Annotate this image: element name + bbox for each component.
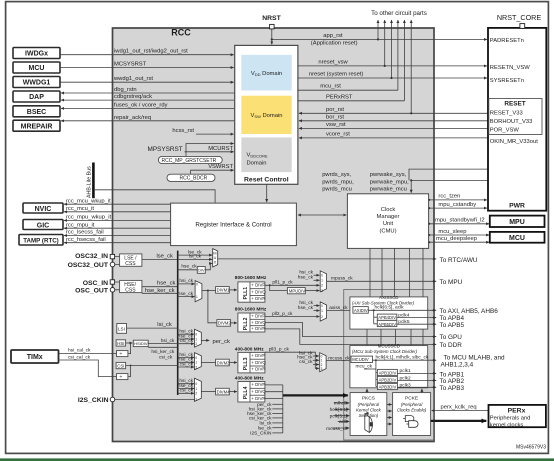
- svg-text:RESETN_VSW: RESETN_VSW: [490, 65, 530, 71]
- svg-text:To DDR: To DDR: [440, 342, 463, 349]
- svg-text:mcu_deepsleep: mcu_deepsleep: [436, 236, 477, 242]
- svg-text:csi_ck: csi_ck: [180, 362, 194, 368]
- svg-text:DIVM2: DIVM2: [218, 321, 231, 326]
- svg-text:Reset Control: Reset Control: [244, 177, 289, 184]
- svg-text:0: 0: [195, 382, 197, 386]
- svg-text:kernel clocks: kernel clocks: [490, 422, 524, 428]
- svg-text:2: 2: [321, 284, 323, 288]
- svg-text:pll3_p_ck: pll3_p_ck: [269, 346, 290, 352]
- svg-text:iwdg1_out_rst/iwdg2_out_rst: iwdg1_out_rst/iwdg2_out_rst: [114, 49, 188, 55]
- svg-text:MPSYSRST: MPSYSRST: [148, 146, 183, 153]
- svg-text:2: 2: [321, 315, 323, 319]
- svg-text:2: 2: [195, 392, 197, 396]
- svg-text:csi_cal_ck: csi_cal_ck: [68, 354, 91, 360]
- svg-text:CSS: CSS: [125, 261, 136, 267]
- svg-text:Domain: Domain: [247, 161, 267, 167]
- svg-text:DAP: DAP: [29, 94, 44, 101]
- svg-text:400-800 MHz: 400-800 MHz: [235, 375, 264, 381]
- svg-text:+ DIVR: + DIVR: [251, 367, 265, 372]
- svg-text:3: 3: [321, 289, 323, 293]
- svg-text:pwrds_mcu: pwrds_mcu: [322, 186, 352, 192]
- svg-text:(Peripheral: (Peripheral: [401, 402, 423, 407]
- svg-text:Clocks Enable): Clocks Enable): [397, 408, 427, 413]
- svg-text:GIC: GIC: [37, 222, 49, 229]
- svg-text:+ DIVP: + DIVP: [251, 382, 265, 387]
- svg-text:pwrwake_mpu,: pwrwake_mpu,: [370, 179, 409, 185]
- svg-text:NRST: NRST: [262, 15, 281, 22]
- svg-text:MCUSSCD: MCUSSCD: [378, 344, 400, 349]
- svg-text:3: 3: [195, 398, 197, 402]
- svg-text:rcc_hsecss_fail: rcc_hsecss_fail: [66, 237, 106, 243]
- svg-text:pclk4: pclk4: [398, 312, 410, 318]
- svg-text:perx_kclk_req: perx_kclk_req: [441, 405, 477, 411]
- svg-text:1: 1: [196, 295, 198, 299]
- svg-text:To GPU: To GPU: [440, 334, 463, 341]
- svg-text:repair_ack/req: repair_ack/req: [114, 115, 151, 121]
- svg-text:U: U: [214, 256, 217, 260]
- svg-text:HSI: HSI: [117, 341, 124, 346]
- svg-text:DIVM1: DIVM1: [217, 288, 230, 293]
- svg-text:M: M: [213, 251, 216, 255]
- svg-text:+ DIVP: + DIVP: [251, 283, 265, 288]
- svg-text:÷: ÷: [120, 351, 123, 357]
- svg-text:0: 0: [196, 283, 198, 287]
- svg-text:pwrwake_mcu: pwrwake_mcu: [370, 186, 407, 192]
- svg-text:HSIDIV: HSIDIV: [134, 341, 148, 346]
- svg-text:I2S_CKIN: I2S_CKIN: [250, 431, 272, 437]
- svg-text:To RTC/AWU: To RTC/AWU: [440, 257, 478, 264]
- svg-text:hse_ker_ck: hse_ker_ck: [145, 288, 175, 294]
- svg-text:OSC_OUT: OSC_OUT: [75, 288, 109, 295]
- svg-text:1: 1: [195, 387, 197, 391]
- svg-text:hcss_rst: hcss_rst: [172, 128, 194, 134]
- svg-text:bor_rst: bor_rst: [326, 114, 344, 120]
- svg-text:app_rst: app_rst: [323, 33, 343, 39]
- svg-text:hsi_cal_ck: hsi_cal_ck: [68, 348, 91, 354]
- svg-text:rcc_lsecss_fail: rcc_lsecss_fail: [66, 230, 104, 236]
- svg-text:lse_ck: lse_ck: [157, 253, 174, 259]
- svg-text:1: 1: [321, 279, 323, 283]
- svg-text:wwdg1_out_rst: wwdg1_out_rst: [113, 76, 153, 82]
- svg-text:AXIDIV: AXIDIV: [354, 308, 368, 313]
- svg-text:nreset (system reset): nreset (system reset): [309, 72, 364, 78]
- svg-text:NRST_CORE: NRST_CORE: [497, 13, 542, 22]
- svg-text:+ DIVP: + DIVP: [251, 313, 265, 318]
- svg-text:pll1_p_ck: pll1_p_ck: [272, 280, 293, 286]
- svg-text:+ DIVQ: + DIVQ: [251, 289, 266, 294]
- svg-text:OSC32_IN: OSC32_IN: [75, 253, 108, 260]
- svg-text:MCU: MCU: [29, 65, 45, 72]
- svg-text:mpu_cstandby: mpu_cstandby: [438, 202, 476, 208]
- svg-text:IWDGx: IWDGx: [25, 51, 48, 58]
- svg-text:AHB1,2,3,4: AHB1,2,3,4: [441, 361, 474, 368]
- svg-text:pclk3: pclk3: [400, 383, 412, 389]
- svg-text:APB2DIV: APB2DIV: [379, 377, 397, 382]
- svg-text:PLL2: PLL2: [243, 317, 249, 330]
- svg-text:lsi_ck: lsi_ck: [157, 322, 172, 328]
- svg-text:hsi_ck: hsi_ck: [179, 278, 193, 284]
- svg-text:RCC_MP_GRSTCSETR: RCC_MP_GRSTCSETR: [162, 158, 217, 164]
- svg-text:WWDG1: WWDG1: [23, 80, 51, 87]
- svg-text:PWR: PWR: [509, 203, 525, 210]
- svg-text:mcu_sleep: mcu_sleep: [438, 229, 466, 235]
- svg-text:3: 3: [321, 367, 323, 371]
- svg-text:MCU: MCU: [509, 235, 525, 242]
- svg-text:400-800 MHz: 400-800 MHz: [235, 346, 264, 352]
- svg-text:hse_ck: hse_ck: [157, 281, 175, 287]
- svg-text:Peripherals and: Peripherals and: [490, 415, 531, 421]
- svg-text:(AXI Sub-System Clock Divider): (AXI Sub-System Clock Divider): [352, 300, 415, 305]
- svg-text:rcc_tzen: rcc_tzen: [438, 194, 460, 200]
- svg-text:Unit: Unit: [383, 221, 394, 227]
- svg-text:+ DIVP: + DIVP: [251, 353, 265, 358]
- svg-text:PLL1: PLL1: [243, 287, 249, 300]
- svg-text:Register Interface & Control: Register Interface & Control: [195, 222, 271, 229]
- svg-text:Selection): Selection): [359, 413, 379, 418]
- svg-text:1: 1: [195, 361, 197, 365]
- svg-text:0: 0: [321, 304, 323, 308]
- svg-text:vcore_rst: vcore_rst: [326, 131, 350, 137]
- svg-text:MREPAIR: MREPAIR: [21, 123, 53, 130]
- svg-text:pwrwake_sys,: pwrwake_sys,: [370, 172, 407, 178]
- svg-text:csi_ck: csi_ck: [299, 359, 313, 365]
- svg-text:APB5DIV: APB5DIV: [378, 322, 396, 327]
- svg-text:hclk[6:1]: hclk[6:1]: [330, 407, 348, 413]
- svg-text:DIV: DIV: [198, 269, 205, 273]
- svg-text:To other circuit parts: To other circuit parts: [371, 10, 427, 17]
- svg-text:+ DIVR: + DIVR: [251, 396, 265, 401]
- svg-text:MCURST: MCURST: [208, 146, 233, 152]
- svg-text:APB3DIV: APB3DIV: [379, 384, 397, 389]
- svg-text:Clock: Clock: [381, 207, 396, 213]
- svg-text:dbg_rstn: dbg_rstn: [114, 87, 137, 93]
- svg-text:+ DIVQ: + DIVQ: [251, 320, 266, 325]
- svg-text:PKCS: PKCS: [362, 395, 375, 401]
- svg-text:2: 2: [195, 365, 197, 369]
- svg-text:PERx: PERx: [508, 407, 526, 414]
- svg-text:RCC_BDCR: RCC_BDCR: [180, 176, 208, 182]
- svg-text:2: 2: [195, 342, 197, 346]
- svg-text:rcc_mcu_wkup_it: rcc_mcu_wkup_it: [66, 198, 111, 204]
- svg-text:vsw_rst: vsw_rst: [326, 122, 346, 128]
- svg-text:cdbgrstreq/ack: cdbgrstreq/ack: [114, 94, 152, 100]
- svg-text:PLL4: PLL4: [243, 386, 249, 399]
- svg-text:DIVM3: DIVM3: [217, 360, 230, 365]
- svg-text:0: 0: [195, 333, 197, 337]
- svg-text:+ DIVQ: + DIVQ: [251, 360, 266, 365]
- svg-text:To MPU: To MPU: [440, 279, 463, 286]
- svg-text:AXISSCD: AXISSCD: [379, 295, 398, 300]
- svg-text:hse_ck: hse_ck: [178, 291, 194, 297]
- svg-text:hsi_ck: hsi_ck: [161, 338, 175, 344]
- svg-text:RESET_V33: RESET_V33: [490, 111, 523, 117]
- svg-text:pclk5: pclk5: [398, 319, 410, 325]
- svg-text:hclk[4:1], mlhclk, slbc_ck: hclk[4:1], mlhclk, slbc_ck: [376, 355, 429, 361]
- svg-text:800-1600 MHz: 800-1600 MHz: [235, 275, 267, 281]
- svg-text:OKIN_MR_V33out: OKIN_MR_V33out: [490, 139, 538, 145]
- svg-text:csi_ck: csi_ck: [180, 388, 194, 394]
- svg-text:To APB3: To APB3: [440, 385, 465, 392]
- svg-text:lse_ck: lse_ck: [258, 426, 272, 432]
- svg-text:+ DIVQ: + DIVQ: [251, 389, 266, 394]
- svg-text:VSW Domain: VSW Domain: [251, 113, 283, 119]
- svg-text:aclk: aclk: [339, 419, 348, 425]
- svg-text:nreset_vsw: nreset_vsw: [318, 59, 348, 65]
- svg-text:To AXI, AHB5, AHB6: To AXI, AHB5, AHB6: [440, 308, 499, 315]
- svg-text:RESET: RESET: [504, 101, 525, 108]
- svg-text:VDD Domain: VDD Domain: [251, 71, 282, 77]
- svg-text:PERxRST: PERxRST: [326, 94, 353, 100]
- svg-text:1: 1: [195, 337, 197, 341]
- svg-text:POR_VSW: POR_VSW: [490, 127, 520, 133]
- svg-text:I2S_CKIN: I2S_CKIN: [78, 397, 109, 404]
- svg-text:TAMP (RTC): TAMP (RTC): [23, 238, 59, 245]
- svg-text:csi_ck: csi_ck: [180, 338, 194, 344]
- svg-text:Manager: Manager: [377, 214, 400, 220]
- svg-text:APB1DIV: APB1DIV: [379, 370, 397, 375]
- svg-text:TIMx: TIMx: [27, 354, 43, 361]
- svg-text:PLL3: PLL3: [243, 357, 249, 370]
- svg-text:hse_ck: hse_ck: [298, 275, 314, 281]
- svg-text:Kernel Clock: Kernel Clock: [356, 408, 382, 413]
- svg-text:hsi_ck: hsi_ck: [299, 270, 313, 276]
- svg-text:(Application reset): (Application reset): [311, 41, 358, 47]
- svg-text:+ DIVR: + DIVR: [251, 296, 265, 301]
- svg-text:mpu_standbywfi_l2: mpu_standbywfi_l2: [435, 218, 485, 224]
- svg-text:MCUDIV: MCUDIV: [352, 357, 369, 362]
- svg-text:CSI: CSI: [117, 363, 124, 368]
- svg-text:rcc_mcu_it: rcc_mcu_it: [66, 206, 94, 212]
- svg-text:VDDCORE: VDDCORE: [247, 153, 269, 159]
- svg-text:0: 0: [321, 274, 323, 278]
- svg-text:AHB-Lite Bus: AHB-Lite Bus: [87, 166, 93, 198]
- svg-text:pwrds_mpu,: pwrds_mpu,: [322, 179, 354, 185]
- svg-text:pclk[5:1]: pclk[5:1]: [330, 414, 348, 420]
- svg-text:(Peripheral: (Peripheral: [358, 402, 380, 407]
- svg-text:pwrds_sys,: pwrds_sys,: [322, 172, 351, 178]
- svg-text:MPUDIV: MPUDIV: [289, 289, 305, 294]
- svg-text:0: 0: [195, 356, 197, 360]
- svg-text:OSC_IN: OSC_IN: [83, 280, 108, 287]
- svg-text:BSEC: BSEC: [27, 109, 46, 116]
- svg-text:(MCU Sub-System Clock Divider): (MCU Sub-System Clock Divider): [352, 349, 418, 354]
- svg-text:PCKE: PCKE: [405, 395, 418, 401]
- svg-text:PADRESETn: PADRESETn: [490, 38, 524, 44]
- svg-text:pclk2: pclk2: [400, 375, 412, 381]
- svg-text:por_rst: por_rst: [326, 107, 344, 113]
- svg-text:rcc_mpu_wkup_it: rcc_mpu_wkup_it: [66, 215, 111, 221]
- svg-text:fuses_ok / vcore_rdy: fuses_ok / vcore_rdy: [114, 102, 168, 108]
- svg-text:APB4DIV: APB4DIV: [378, 315, 396, 320]
- svg-text:800-1600 MHz: 800-1600 MHz: [235, 306, 267, 312]
- svg-text:csi_ck: csi_ck: [159, 355, 173, 361]
- svg-text:rcc_mpu_it: rcc_mpu_it: [66, 222, 95, 228]
- svg-text:mcuss_ck: mcuss_ck: [328, 355, 350, 361]
- svg-text:mpuss_ck: mpuss_ck: [331, 276, 353, 282]
- svg-text:pll2_p_ck: pll2_p_ck: [272, 311, 293, 317]
- svg-text:1: 1: [321, 309, 323, 313]
- svg-text:CSS: CSS: [125, 288, 136, 294]
- svg-text:MSv46579V3: MSv46579V3: [516, 445, 546, 451]
- svg-text:To APB5: To APB5: [440, 322, 465, 329]
- svg-text:RCC: RCC: [171, 28, 191, 38]
- svg-text:mlhclk: mlhclk: [334, 401, 348, 407]
- svg-text:mcu_ck: mcu_ck: [356, 364, 373, 370]
- svg-text:hclk[6:5], aclk: hclk[6:5], aclk: [375, 305, 405, 311]
- svg-text:÷: ÷: [120, 374, 123, 380]
- svg-text:DIVM4: DIVM4: [217, 389, 230, 394]
- svg-text:VSWRST: VSWRST: [208, 164, 233, 170]
- svg-text:MPU: MPU: [509, 219, 525, 226]
- svg-text:(CMU): (CMU): [379, 228, 396, 234]
- svg-text:hsi_ker_ck: hsi_ker_ck: [151, 349, 175, 355]
- svg-text:mcuss_ck: mcuss_ck: [326, 426, 348, 432]
- svg-text:axiss_ck: axiss_ck: [329, 305, 348, 311]
- svg-text:OSC32_OUT: OSC32_OUT: [68, 262, 109, 269]
- svg-text:+ DIVR: + DIVR: [251, 326, 265, 331]
- svg-text:SYSRESETn: SYSRESETn: [490, 78, 524, 84]
- svg-text:BORHOUT_V33: BORHOUT_V33: [490, 119, 533, 125]
- svg-text:LSI: LSI: [118, 327, 125, 332]
- svg-text:hse_ck: hse_ck: [298, 305, 314, 311]
- svg-text:NVIC: NVIC: [35, 206, 52, 213]
- svg-text:pclk1: pclk1: [400, 368, 412, 374]
- svg-text:MCSYSRST: MCSYSRST: [114, 62, 147, 68]
- svg-text:hse_ck: hse_ck: [181, 264, 197, 270]
- svg-text:mcu_rst: mcu_rst: [320, 84, 341, 90]
- svg-text:per_ck: per_ck: [213, 339, 231, 345]
- svg-text:lsi_ck: lsi_ck: [189, 254, 202, 260]
